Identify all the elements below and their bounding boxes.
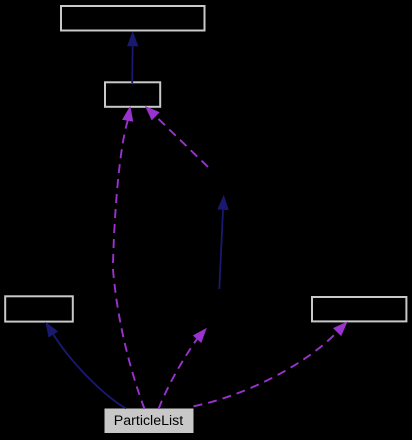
edge inheritance segment: vertical solid midnightblue with mid arrow (217, 195, 228, 289)
edge usage: ParticleList to right box (dashed darkorchid curve) (194, 321, 348, 406)
arrowhead at left box bottom (45, 322, 58, 338)
edge inheritance: ParticleList to left box (solid midnightblue curve) (45, 322, 126, 409)
svg-text:ParticleList: ParticleList (114, 413, 183, 429)
arrowhead at middle box bottom-right (145, 106, 160, 121)
edge usage segment: ParticleList up-right to mid arrow (dashed darkorchid) (159, 328, 207, 409)
node ParticleList (current class, gray fill) (105, 409, 193, 433)
arrowhead mid canvas pointing up-right (193, 328, 207, 343)
node box top (parent class, unlabeled) (61, 6, 205, 31)
edge usage segment: hidden node to middle box (dashed darkorchid diagonal) (145, 106, 208, 167)
arrowhead at middle box bottom-left (122, 106, 133, 122)
edge inheritance: middle box to top box (solid midnightblue) (127, 31, 138, 83)
arrowhead at right box bottom (333, 321, 348, 336)
node box right (unlabeled) (312, 297, 406, 321)
node box left (unlabeled) (5, 296, 73, 321)
arrowhead at top box (127, 31, 138, 46)
edge usage: ParticleList to middle box (dashed darkorchid, long left bow) (113, 106, 145, 409)
arrowhead mid canvas pointing up (217, 195, 228, 210)
node box middle (base class, unlabeled) (105, 82, 160, 107)
